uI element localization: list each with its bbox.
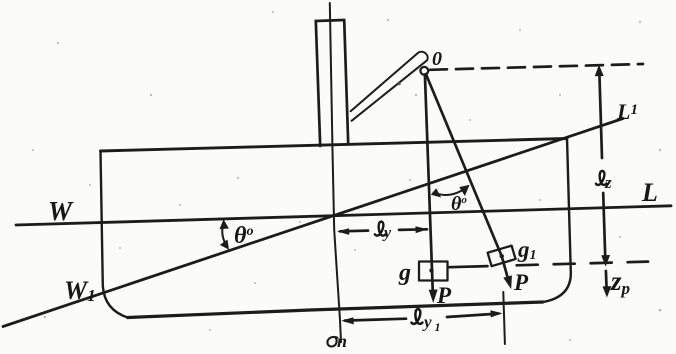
hull left side [101, 151, 128, 318]
hull right side [543, 139, 571, 303]
boom davit [351, 52, 428, 121]
weight g box [419, 262, 448, 281]
svg-text:P: P [436, 283, 452, 308]
svg-text:W: W [48, 196, 74, 226]
hull deck line [101, 139, 568, 152]
svg-text:g: g [398, 260, 411, 286]
force arrow P left [429, 290, 438, 303]
label lz [596, 171, 607, 185]
inclined waterline W1 L1 [3, 119, 623, 327]
svg-text:g1: g1 [517, 237, 537, 263]
label ly [375, 222, 386, 236]
dimension ly1 [345, 319, 406, 321]
dashed line from O [430, 64, 643, 70]
svg-text:n: n [337, 331, 347, 351]
mast [316, 20, 344, 21]
dimension lz vertical [599, 70, 602, 158]
svg-text:L1: L1 [616, 99, 638, 124]
svg-text:z: z [604, 173, 612, 192]
svg-text:0: 0 [432, 48, 442, 70]
pendulum vertical line [425, 75, 433, 296]
extension line below g1 [503, 292, 505, 344]
svg-text:1: 1 [435, 320, 441, 334]
dimension zp arrow [605, 271, 608, 289]
dashed line g to g1 level [449, 266, 488, 267]
svg-text:θo: θo [234, 223, 253, 249]
svg-text:zp: zp [610, 266, 630, 298]
svg-text:y: y [422, 313, 432, 332]
svg-text:y: y [382, 225, 392, 242]
pendulum inclined line [426, 74, 509, 282]
waterline W L [16, 206, 671, 225]
force arrow P right [503, 275, 512, 289]
label centerline n [327, 337, 337, 347]
svg-text:W1: W1 [64, 276, 96, 305]
weight g1 box [488, 246, 516, 267]
dimension ly [340, 229, 368, 232]
svg-text:P: P [513, 270, 529, 295]
theta arc pendulum [434, 187, 468, 195]
svg-text:L: L [641, 178, 658, 207]
label ly1 [411, 309, 422, 324]
pivot O ring [420, 67, 428, 75]
hull bottom [128, 302, 543, 318]
mast centerline [330, 3, 341, 342]
theta arc ship heel [222, 223, 227, 248]
